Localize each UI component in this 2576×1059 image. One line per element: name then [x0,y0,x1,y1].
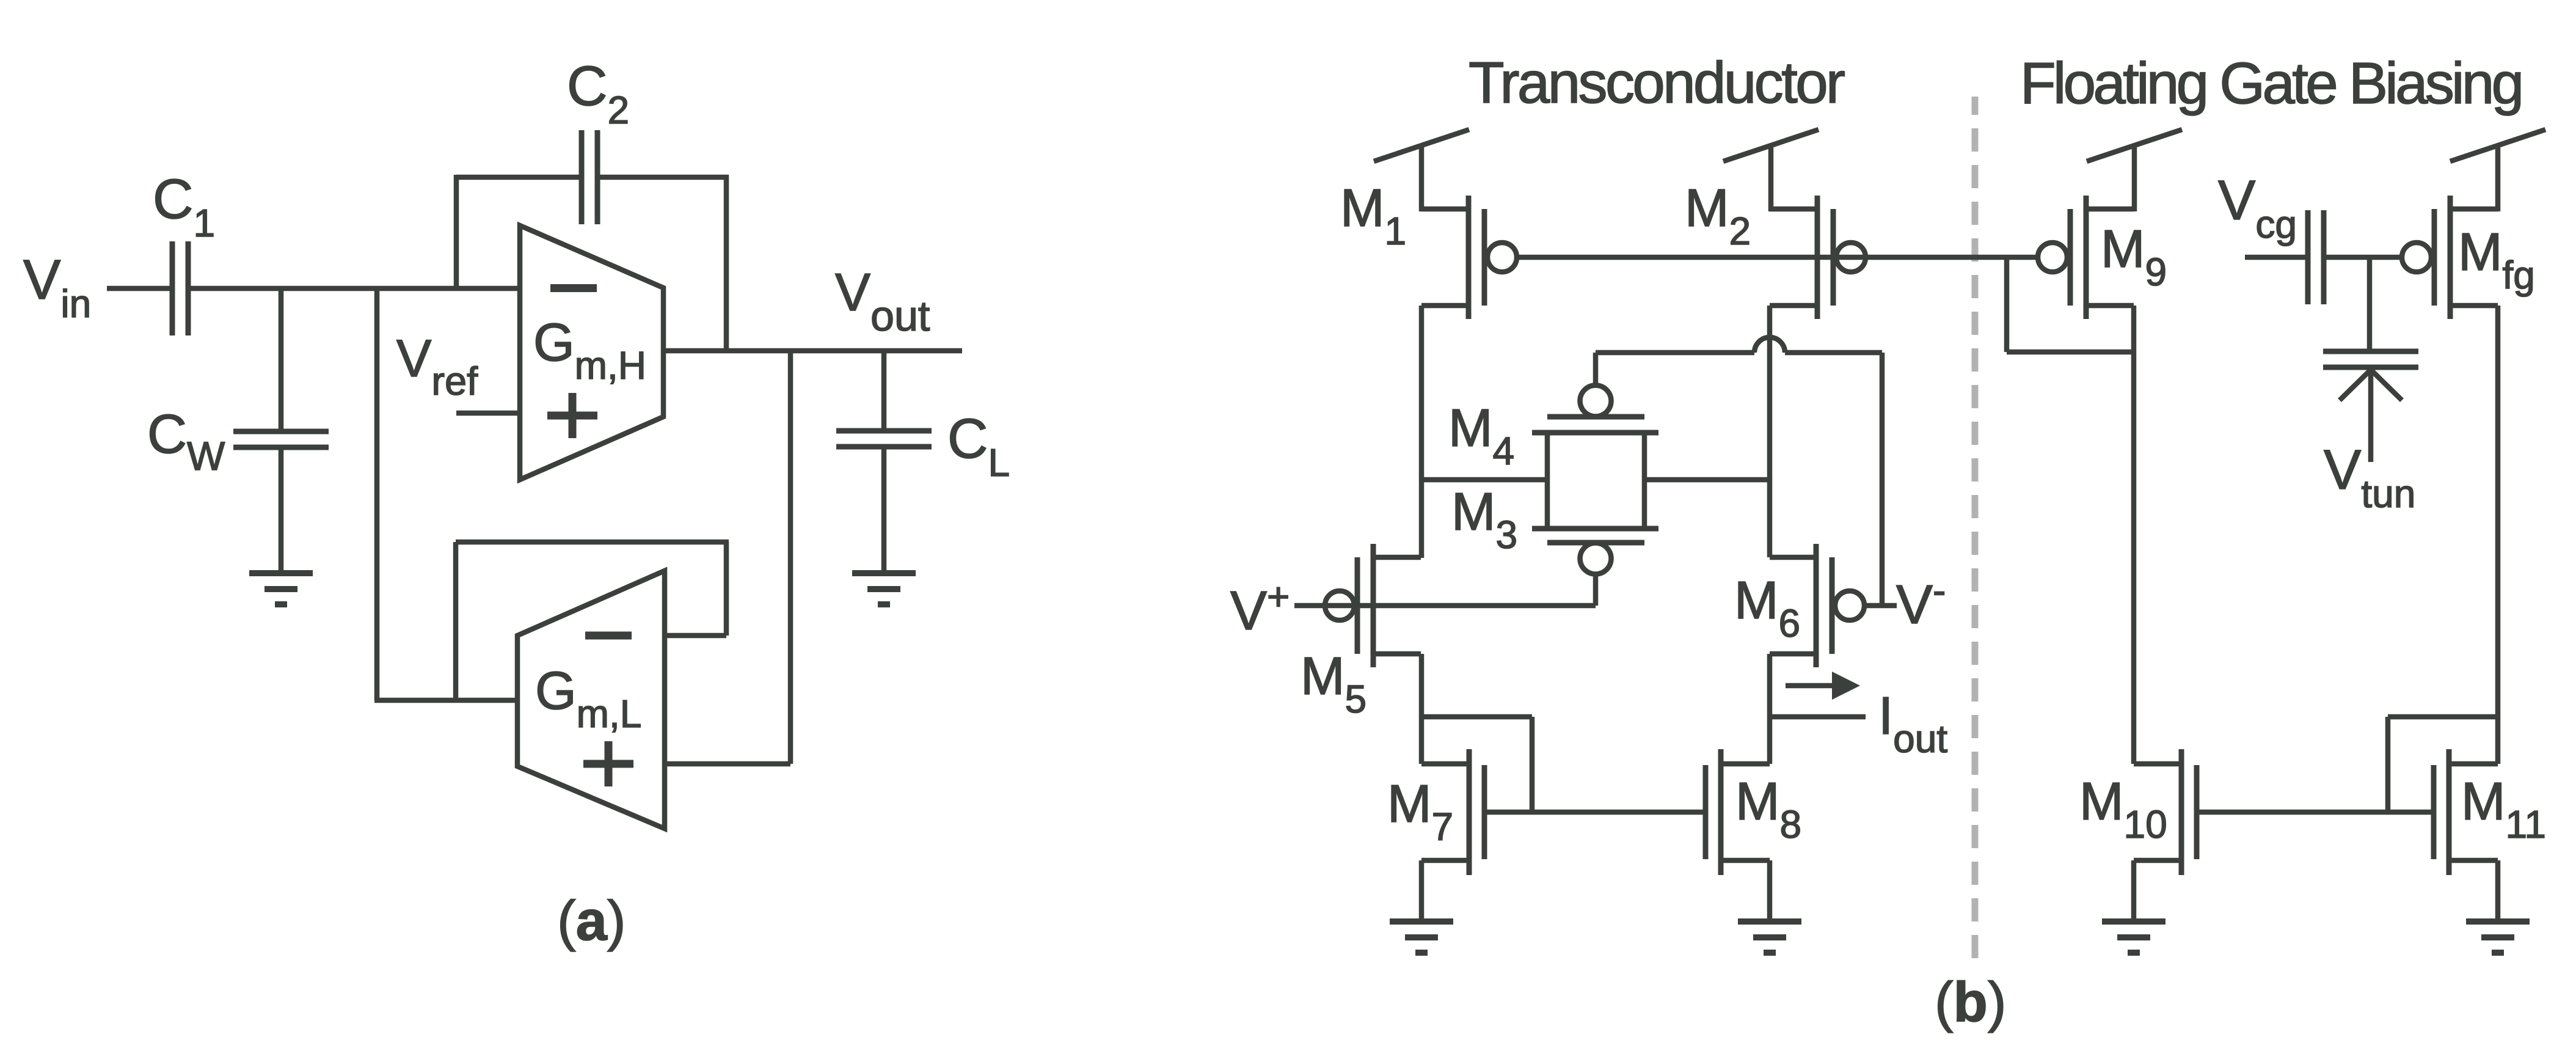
wire M11 diode riser [2385,717,2391,812]
label C1 [153,168,215,245]
wire M9 drain to M10 [2131,306,2137,764]
wire Iout tap [1770,714,1866,720]
transistor M11 [2434,749,2498,875]
label (b) [1935,971,2006,1033]
transistor Mfg [2402,196,2498,319]
wire M7 diode riser [1530,717,1535,812]
label M8 [1735,772,1801,846]
minus sign Gm_L [585,632,632,640]
wire input node to Gm_L output [374,288,380,700]
label CL [947,408,1010,485]
supply M1 [1374,130,1469,211]
wire Vcg lead [2245,255,2308,260]
wire Gm_L feedback right riser [724,542,729,636]
transistor M9 [2038,196,2134,319]
wire input node [188,286,520,291]
label M7 [1387,774,1453,849]
label V- [1896,568,1946,636]
wire M2 drain down [1767,306,1773,557]
supply Mfg [2450,130,2545,211]
wire C2 feedback top left [456,175,582,180]
transistor M3 [1532,529,1658,606]
label Vref [396,329,478,403]
wire box right to M2 drain [1644,477,1770,483]
wire M6 gate stub [1864,603,1897,609]
wire Gm_L plus input [665,761,790,767]
label CW [147,404,225,478]
transistor M5 [1325,544,1421,667]
arrow Iout [1786,672,1860,700]
label M9 [2101,219,2167,294]
wire Vout to Gm_L plus riser [788,351,794,764]
wire box left to M1 drain [1421,477,1547,483]
label M5 [1301,647,1366,721]
label V+ [1230,574,1290,642]
wire M1 drain down [1419,306,1425,558]
wire Vin input [107,286,172,291]
ground CL [852,573,916,604]
op-amp Gm_L [517,571,665,829]
node input junction wire to CW [279,288,284,431]
label Mfg [2458,222,2535,297]
ground M10 [2102,922,2166,953]
label M2 [1685,178,1751,253]
wire gate bus M1-M2-M9 [1516,255,2038,260]
wire Vcg to Mfg gate [2324,255,2403,260]
label Vin [23,249,91,326]
wire CW to ground [279,447,284,574]
capacitor CL [836,431,932,447]
svg-text:Transconductor: Transconductor [1469,50,1845,115]
label M10 [2079,772,2167,846]
label M1 [1340,178,1406,253]
op-amp Gm_H [520,225,663,480]
wire M4 gate riser to M6 gate [1880,353,1885,606]
wire M9 gate-drain left riser [2004,257,2010,352]
label M6 [1734,571,1800,645]
wire Mfg drain to M11 [2495,306,2501,764]
transistor M8 [1706,749,1770,875]
transistor M10 [2134,749,2197,875]
label Iout [1878,686,1947,761]
ground M11 [2466,922,2530,953]
wire M4-M3 box left [1545,433,1550,529]
label M11 [2461,772,2546,846]
wire Vout [663,348,962,354]
wire M5 drain down [1419,654,1425,764]
label Gm_L [535,661,641,736]
wire M9 gate-drain bottom [2007,350,2134,355]
transistor M1 [1421,196,1517,319]
wire Gm_L feedback riser [453,542,459,700]
wire M7 source to ground [1419,860,1425,923]
capacitor Vtun tunneling [2323,351,2418,462]
supply M9 [2087,130,2182,211]
capacitor C1 [172,241,188,335]
wire M11 source to ground [2495,860,2501,923]
label (a) [557,890,626,952]
capacitor Vcg [2308,210,2324,304]
wire Vref input [456,411,520,416]
label Gm_H [533,313,646,387]
wire C2 feedback top right [597,175,729,180]
transistor M6 [1770,544,1864,667]
wire M7 diode top [1421,714,1532,720]
wire M4 gate with hop to V- [1596,337,1882,353]
svg-text:Floating Gate Biasing: Floating Gate Biasing [2020,51,2524,116]
wire Gm_L minus input [665,633,726,639]
wire tunneling junction riser [2367,257,2373,351]
wire V+ to M3 gate [1294,603,1596,609]
wire C2 feedback right riser to Vout [724,175,729,351]
minus sign Gm_H [550,284,597,292]
wire M6 drain down [1767,654,1773,764]
plus sign Gm_L [583,741,633,786]
label Vout [835,263,930,340]
wire Vout to CL [881,351,887,431]
supply M2 [1723,130,1819,211]
capacitor CW [233,431,329,447]
wire Gm_L output [374,698,517,703]
divider dashed line [1972,97,1979,959]
transistor M2 [1770,196,1866,319]
wire CL to ground [881,447,887,574]
label Floating Gate Biasing [2020,51,2524,116]
wire M10-M11 gate bus [2196,810,2434,815]
plus sign Gm_H [547,393,597,438]
ground M7 [1390,922,1453,953]
wire M10 source to ground [2131,860,2137,923]
label M3 [1451,482,1517,557]
label Transconductor [1469,50,1845,115]
capacitor C2 [582,130,597,224]
label M4 [1448,398,1514,473]
wire M11 diode top [2388,714,2498,720]
svg-text:(a): (a) [557,890,626,952]
label Vtun [2324,439,2415,516]
svg-text:(b): (b) [1935,971,2006,1033]
wire C2 feedback left riser [454,175,459,291]
transistor M4 [1532,353,1658,433]
label C2 [567,55,629,132]
ground M8 [1738,922,1801,953]
label Vcg [2218,169,2297,246]
wire M8 source to ground [1767,860,1773,923]
ground CW [249,573,313,604]
transistor M7 [1421,749,1484,875]
wire Gm_L feedback top [456,540,729,545]
wire M7-M8 gate bus [1484,810,1706,815]
wire M4-M3 box right [1642,433,1647,529]
